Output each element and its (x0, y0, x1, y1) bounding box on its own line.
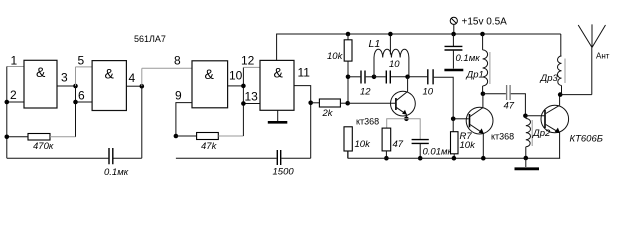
resistor 47k (197, 133, 219, 140)
svg-text:10k: 10k (355, 139, 372, 150)
wire pin5 input (76, 66, 93, 68)
gate U1.1 (&) (24, 60, 57, 108)
svg-text:2k: 2k (322, 108, 334, 119)
junction pin10 (241, 84, 246, 89)
wire pin1 input gate U1.1 (7, 66, 24, 68)
junction 470k left (5, 135, 10, 140)
wire 470k right (50, 136, 76, 138)
wire branch to cap 12 (348, 76, 360, 78)
svg-text:470к: 470к (33, 141, 54, 152)
svg-text:0.01мк: 0.01мк (423, 147, 453, 158)
wire L1 centre tap (389, 34, 391, 55)
capacitor 47 (boxed) (382, 128, 391, 151)
wire 10k to divider node (347, 61, 349, 103)
wire pin10 output (228, 85, 244, 87)
svg-text:&: & (274, 65, 284, 81)
wire pin9 input (176, 103, 192, 136)
wire pin6 input (76, 101, 93, 103)
inductor Др1 (482, 34, 484, 50)
transistor Q1 кт368 (391, 91, 416, 116)
wire bottom bus left (7, 157, 109, 159)
capacitor 10b (428, 69, 433, 84)
wire Q2 collector to 47 coupling cap (483, 93, 506, 95)
junction rail/10k (346, 32, 351, 37)
junction Q3 collector node (558, 92, 563, 97)
wire pin4 output (126, 85, 141, 87)
wire power pin14 stub (277, 34, 561, 60)
junction power/rail (451, 32, 456, 37)
junction Др2/bus (524, 156, 529, 161)
wire 2k right to Q1 base node (340, 102, 347, 104)
svg-text:0.1мк: 0.1мк (456, 53, 481, 64)
transistor Q2 кт368 (482, 94, 484, 108)
resistor 470k (28, 134, 50, 141)
svg-text:10: 10 (229, 69, 243, 83)
svg-text:11: 11 (298, 66, 311, 80)
svg-text:Ант: Ант (596, 52, 610, 61)
svg-text:561ЛА7: 561ЛА7 (134, 34, 166, 44)
wire power to rail (453, 24, 455, 34)
junction pin11/2k (308, 101, 313, 106)
wire base to Q3 (525, 115, 544, 117)
wire bottom bus right (348, 151, 560, 158)
wire 1500 right (281, 157, 310, 159)
wire bottom bus mid (176, 157, 277, 159)
svg-text:10: 10 (423, 87, 434, 98)
wire 47k left (176, 135, 197, 137)
wire cap10a to collector node (391, 76, 408, 78)
svg-text:10: 10 (389, 59, 400, 70)
svg-text:12: 12 (241, 54, 255, 68)
svg-text:Др1: Др1 (466, 70, 484, 81)
capacitor 12 (361, 71, 365, 84)
wire pin3 node vertical (75, 67, 77, 86)
svg-text:9: 9 (175, 89, 182, 103)
wire 470k left (7, 136, 28, 138)
svg-text:1500: 1500 (273, 167, 295, 178)
capacitor 0.1мк (decoupling) (452, 34, 454, 46)
capacitor 1500 (277, 150, 280, 165)
junction Q1 collector node (405, 75, 410, 80)
ground symbol (525, 158, 527, 167)
resistor 10k lower (344, 127, 352, 151)
gate U1.3 (&) (192, 61, 228, 108)
capacitor 10a (386, 71, 390, 84)
inductor Др3 (560, 34, 562, 56)
capacitor 0.01мк (412, 140, 429, 144)
wire emitter to 0.01мк (406, 119, 420, 139)
power connector symbol (450, 17, 457, 24)
wire L1 left to cap 10a (374, 76, 386, 78)
junction L1 left (372, 75, 377, 80)
junction pin9/47k (174, 134, 179, 139)
wire pin2 input (7, 101, 24, 103)
wire ground pin7 stub (277, 110, 279, 121)
junction Q1 emitter node (404, 117, 409, 122)
wire cap to pin4 node (114, 157, 142, 159)
svg-text:8: 8 (174, 54, 181, 68)
svg-text:+15v 0.5A: +15v 0.5A (462, 17, 508, 28)
svg-text:2: 2 (10, 88, 17, 102)
junction rail/L1 tap (388, 32, 393, 37)
inductor Др2 (525, 116, 527, 119)
junction Q2 emitter/bus (481, 156, 486, 161)
junction Q2 base node (451, 117, 456, 122)
svg-text:3: 3 (61, 71, 68, 85)
antenna (591, 48, 593, 95)
junction R7/bus (452, 156, 457, 161)
wire left vertical bus (6, 67, 8, 159)
wire 47 to bus (385, 151, 387, 158)
svg-text:10k: 10k (327, 51, 344, 62)
wire cap12 to L1 left node (366, 76, 374, 78)
junction divider node (346, 75, 351, 80)
gate U1.2 (&) (92, 61, 126, 111)
wire pin4 node vertical up (141, 68, 143, 86)
svg-text:0.1мк: 0.1мк (104, 167, 129, 178)
ground bar U1 (268, 121, 288, 124)
svg-text:&: & (36, 64, 46, 80)
resistor 10k upper (347, 34, 349, 40)
junction rail/Др1 (480, 32, 485, 37)
junction Q1 base node (345, 101, 350, 106)
svg-text:L1: L1 (369, 38, 381, 50)
svg-text:&: & (205, 66, 215, 82)
svg-text:кт368: кт368 (491, 132, 514, 142)
svg-text:10k: 10k (460, 140, 477, 151)
wire 47k right to pin13 node (218, 135, 243, 137)
svg-text:&: & (105, 66, 115, 82)
svg-text:1: 1 (11, 54, 18, 68)
transistor Q3 КТ606Б (541, 105, 569, 133)
wire collector node to cap 10b (408, 76, 428, 78)
capacitor 47 (coupling) (507, 85, 511, 100)
resistor R7 10k (452, 119, 454, 132)
svg-text:6: 6 (78, 89, 85, 103)
svg-text:47k: 47k (201, 141, 218, 152)
junction 47/bus (384, 156, 389, 161)
wire 2k left (311, 102, 320, 104)
svg-text:Др3: Др3 (540, 73, 559, 84)
capacitor 0.1мк (audio) (109, 148, 113, 164)
wire pin11 output (294, 86, 311, 159)
wire emitter to 47 cap (387, 119, 407, 128)
svg-text:47: 47 (504, 100, 515, 111)
wire collector node to antenna (560, 94, 592, 96)
wire pin8 input (142, 67, 192, 69)
svg-text:12: 12 (360, 87, 371, 98)
wire pin3 output (57, 85, 76, 87)
svg-text:4: 4 (129, 71, 136, 85)
junction pin4 node (140, 84, 145, 89)
junction 0.01мк/bus (418, 156, 423, 161)
junction pin3 node (73, 84, 78, 89)
gate U1.4 (&) (260, 60, 294, 110)
wire pin12 input (243, 66, 260, 68)
junction Q3 base node (523, 114, 528, 119)
junction pin13 (241, 101, 246, 106)
svg-text:КТ606Б: КТ606Б (570, 134, 603, 145)
wire 47 to Q3 base node (511, 94, 526, 116)
svg-text:13: 13 (245, 90, 259, 104)
svg-text:кт368: кт368 (356, 117, 379, 127)
resistor 2k (319, 99, 340, 107)
svg-text:47: 47 (393, 139, 404, 150)
svg-text:5: 5 (78, 54, 85, 68)
junction pin2/left bus (5, 100, 10, 105)
junction pin6 (73, 100, 78, 105)
junction Q2 collector node (481, 92, 486, 97)
wire pin13 input (243, 103, 260, 105)
svg-text:Др2: Др2 (532, 128, 551, 139)
wire cap10b to Q2 base (434, 77, 453, 119)
ground bar 0.1мк (444, 69, 463, 72)
